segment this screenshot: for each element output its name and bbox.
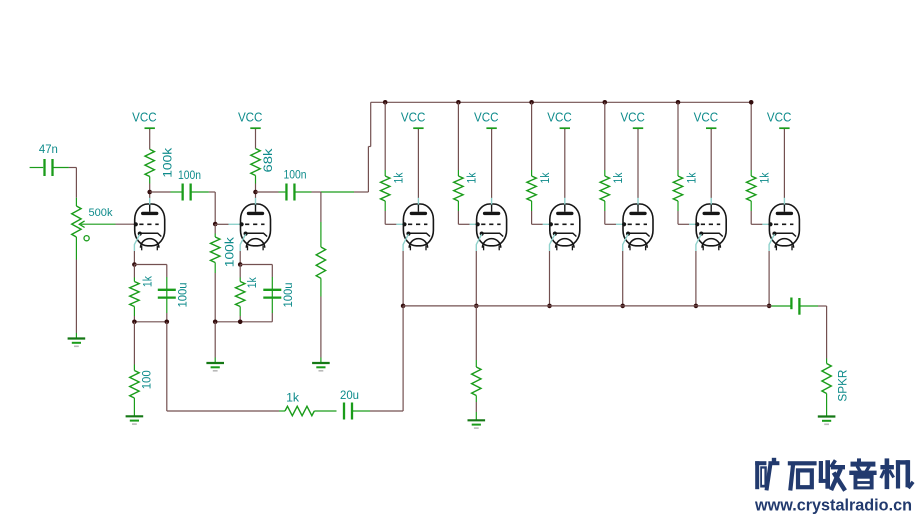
svg-text:VCC: VCC <box>132 111 157 125</box>
wire R15 to ground <box>475 396 477 420</box>
svg-text:VCC: VCC <box>238 111 263 125</box>
power VCC V7 <box>694 111 719 130</box>
wire VCC to V6 plate <box>637 129 639 198</box>
node plate2 <box>253 190 258 195</box>
label 1k R11 <box>538 172 552 184</box>
capacitor C1 47n input <box>30 159 69 176</box>
node top bus 0 <box>383 100 388 105</box>
node top bus 3 <box>603 100 608 105</box>
wire cathode1 node across to C3 <box>134 264 166 266</box>
wire R6 to bottom node2 <box>214 263 216 322</box>
tube V3 <box>402 198 433 251</box>
resistor R12 1k grid <box>600 176 609 201</box>
wire bus to R13 <box>677 102 679 176</box>
node cathode2 <box>238 262 243 267</box>
node bottom2a <box>213 320 218 325</box>
wire pot wiper to V1 grid <box>81 223 134 225</box>
wire R7 to bottom node2 <box>239 307 241 322</box>
label 1k R13 <box>684 172 698 184</box>
label 1k R10 <box>465 172 479 184</box>
wire plate node2 to C4 <box>256 191 286 193</box>
node bottom bus 1 <box>474 304 479 309</box>
resistor R5 68k plate load <box>251 149 260 176</box>
label 20u C6 <box>340 388 359 402</box>
svg-text:1k: 1k <box>141 275 155 287</box>
wire bus to R9 <box>384 102 386 176</box>
wire grid node2 to R6 <box>214 224 216 237</box>
wire R14 to V8 grid <box>751 201 770 224</box>
svg-text:100u: 100u <box>176 282 190 307</box>
label 1k R16 <box>286 391 300 405</box>
wire V4 cathode to bottom bus <box>475 251 477 306</box>
ground R8 <box>312 363 330 372</box>
svg-text:1k: 1k <box>758 172 772 184</box>
svg-text:VCC: VCC <box>767 111 792 125</box>
wire cathode2 across to C5 <box>240 264 272 266</box>
wire R6 column to ground <box>214 322 216 363</box>
watermark crystalradio logo <box>755 458 912 490</box>
wire R10 to V4 grid <box>458 201 477 224</box>
svg-text:100k: 100k <box>223 236 237 267</box>
label 500k <box>89 207 114 219</box>
node bottom bus 3 <box>620 304 625 309</box>
wire R11 to V5 grid <box>532 201 551 224</box>
node bottom1a <box>132 320 137 325</box>
wire C6 to bottom bus <box>352 306 403 411</box>
svg-text:20u: 20u <box>340 388 359 402</box>
svg-text:1k: 1k <box>392 172 406 184</box>
wire R5 to plate node 2 <box>255 176 257 193</box>
wire pot bottom to ground <box>75 237 77 339</box>
power VCC V4 <box>474 111 499 130</box>
watermark url <box>754 496 912 515</box>
ground stage2 <box>206 363 224 372</box>
node top bus 4 <box>676 100 681 105</box>
svg-text:100: 100 <box>139 370 153 389</box>
svg-text:VCC: VCC <box>401 111 426 125</box>
tube V5 <box>549 198 580 251</box>
wire R4 to ground <box>133 398 135 416</box>
svg-text:47n: 47n <box>39 142 58 156</box>
wire C5 column <box>271 265 273 322</box>
wire bus to R15 <box>475 306 477 367</box>
wire bus to R10 <box>457 102 459 176</box>
wire plate node2 to V2 plate <box>255 192 257 198</box>
wire R13 to V7 grid <box>678 201 697 224</box>
resistor R7 1k cathode <box>236 282 245 307</box>
wire V6 cathode to bottom bus <box>622 251 624 306</box>
label 68k R5 <box>261 148 275 173</box>
wire V1 cathode down <box>133 251 135 265</box>
capacitor C6 20u <box>344 403 352 420</box>
label 100n C4 <box>284 168 307 182</box>
potentiometer R1 500k <box>72 206 90 241</box>
svg-text:100k: 100k <box>161 147 175 178</box>
ground R15 <box>468 420 486 429</box>
node bottom bus 4 <box>694 304 699 309</box>
resistor R2 100k plate load <box>145 149 154 176</box>
wire cathode2 to R7 <box>239 265 241 282</box>
svg-text:VCC: VCC <box>620 111 645 125</box>
node bottom bus 2 <box>547 304 552 309</box>
wire V3 cathode to bottom bus <box>402 251 404 306</box>
capacitor C7 output <box>791 298 799 315</box>
node top bus 5 <box>749 100 754 105</box>
resistor R6 100k grid <box>211 237 220 263</box>
capacitor C2 100n coupling <box>183 184 191 201</box>
tube V1 <box>134 198 165 251</box>
tube V2 <box>240 198 271 251</box>
wire riser to top bus <box>368 102 370 192</box>
wire cathode1 to R3 <box>133 265 135 282</box>
resistor R10 1k grid <box>454 176 463 201</box>
svg-text:VCC: VCC <box>547 111 572 125</box>
node cathode1 <box>132 262 137 267</box>
svg-text:VCC: VCC <box>474 111 499 125</box>
svg-text:100n: 100n <box>284 168 307 182</box>
svg-text:68k: 68k <box>261 148 275 173</box>
svg-text:www.crystalradio.cn: www.crystalradio.cn <box>754 496 912 515</box>
wire C4 to driver bus riser <box>294 191 368 193</box>
wire VCC to V8 plate <box>783 129 785 198</box>
wire R2 to plate node <box>149 177 151 193</box>
wire V7 cathode to bottom bus <box>695 251 697 306</box>
label 100u C5 <box>281 282 295 307</box>
wire bus to R12 <box>604 102 606 176</box>
power VCC V3 <box>401 111 426 130</box>
tube V7 <box>695 198 726 251</box>
wire bottom bus <box>403 305 769 307</box>
wire R3 to bottom node <box>133 307 135 322</box>
svg-text:1k: 1k <box>245 277 259 289</box>
resistor R16 1k feedback <box>285 406 314 415</box>
svg-text:VCC: VCC <box>694 111 719 125</box>
power VCC V5 <box>547 111 572 130</box>
node bottom1b <box>165 320 170 325</box>
wire V2 cathode down <box>239 251 241 265</box>
label 100k R6 <box>223 236 237 267</box>
wire R9 to V3 grid <box>385 201 404 224</box>
node grid2 <box>213 222 218 227</box>
power VCC stage2 <box>238 111 263 130</box>
node bottom2b <box>238 320 243 325</box>
wire bus to C7 <box>769 305 791 307</box>
ground stage1 <box>126 416 144 425</box>
label 47n <box>39 142 58 156</box>
wire C7 to speaker <box>799 306 826 364</box>
wire plate node to C2 <box>150 191 182 193</box>
wire plate node to V1 plate <box>149 192 151 198</box>
svg-text:500k: 500k <box>89 207 114 219</box>
wire V8 cathode to bottom bus <box>768 251 770 306</box>
ground input pot <box>68 339 86 348</box>
label 100u C3 <box>176 282 190 307</box>
wire V5 cathode to bottom bus <box>549 251 551 306</box>
resistor R9 1k grid <box>381 176 390 201</box>
label 100 R4 <box>139 370 153 389</box>
wire speaker to ground <box>826 394 828 417</box>
label 100n C2 <box>178 168 201 182</box>
wire VCC to V4 plate <box>491 129 493 198</box>
resistor R11 1k grid <box>527 176 536 201</box>
svg-text:100n: 100n <box>178 168 201 182</box>
resistor R14 1k grid <box>747 176 756 201</box>
wire C3 column <box>166 265 168 322</box>
tube V8 <box>768 198 799 251</box>
tube V6 <box>622 198 653 251</box>
resistor R3 1k cathode <box>130 282 139 307</box>
wire R12 to V6 grid <box>605 201 624 224</box>
svg-text:1k: 1k <box>611 172 625 184</box>
wire R16 to C6 <box>314 410 336 412</box>
svg-text:100u: 100u <box>281 282 295 307</box>
svg-text:1k: 1k <box>684 172 698 184</box>
power VCC V8 <box>767 111 792 130</box>
node top bus 1 <box>456 100 461 105</box>
label 1k R3 <box>141 275 155 287</box>
capacitor C3 100u bypass <box>158 290 176 298</box>
wire VCC to R2 <box>149 129 151 149</box>
resistor R4 100 <box>130 371 139 399</box>
wire bottom node1 across <box>134 321 166 323</box>
wire grid node2 to V2 grid <box>215 223 241 225</box>
wire bottom bus2 <box>215 321 272 323</box>
power VCC V6 <box>620 111 645 130</box>
wire VCC to V7 plate <box>710 129 712 198</box>
label 1k R14 <box>758 172 772 184</box>
wire VCC to V5 plate <box>564 129 566 198</box>
wire top bus <box>371 102 752 170</box>
resistor R15 <box>472 367 481 396</box>
wire VCC to V3 plate <box>417 129 419 198</box>
label 1k R7 <box>245 277 259 289</box>
label 100k R2 <box>161 147 175 178</box>
svg-text:SPKR: SPKR <box>836 370 849 402</box>
resistor R8 grid leak <box>316 192 325 278</box>
node top bus 2 <box>529 100 534 105</box>
node bottom bus 0 <box>401 304 406 309</box>
wire R8 to ground <box>320 278 322 362</box>
wire VCC to R5 <box>255 129 257 149</box>
capacitor C4 100n coupling <box>286 184 294 201</box>
label SPKR <box>836 370 849 402</box>
svg-text:1k: 1k <box>465 172 479 184</box>
wire bus to R11 <box>531 102 533 176</box>
node plate1 <box>147 190 152 195</box>
wire feedback from stage1 <box>167 322 285 411</box>
label 1k R9 <box>392 172 406 184</box>
wire C2 to grid node 2 <box>191 192 216 224</box>
node bottom bus 5 <box>767 304 772 309</box>
capacitor C5 100u bypass <box>263 290 281 298</box>
ground speaker <box>818 417 836 426</box>
wire bus to R14 <box>750 170 752 176</box>
svg-text:1k: 1k <box>286 391 300 405</box>
wire input cap to pot top <box>69 168 77 207</box>
tube V4 <box>476 198 507 251</box>
speaker SPKR <box>822 364 831 394</box>
wire to R4 <box>133 322 135 371</box>
label 1k R12 <box>611 172 625 184</box>
resistor R13 1k grid <box>673 176 682 201</box>
svg-text:1k: 1k <box>538 172 552 184</box>
power VCC stage1 <box>132 111 157 130</box>
